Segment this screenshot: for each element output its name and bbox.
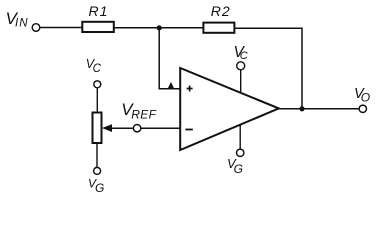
svg-text:R2: R2	[211, 3, 231, 19]
svg-text:REF: REF	[131, 108, 156, 122]
wire R1 to R2	[114, 27, 204, 29]
op-amp U1	[180, 68, 279, 150]
arrow on + input wire	[167, 82, 174, 90]
terminal VC pot	[94, 81, 101, 88]
svg-text:G: G	[95, 181, 104, 195]
potentiometer P1 body	[93, 113, 102, 144]
wiper arrow of potentiometer	[102, 124, 112, 132]
svg-text:R1: R1	[89, 3, 109, 19]
svg-text:C: C	[93, 63, 102, 75]
wire VIN to R1	[40, 27, 82, 29]
wire VC to pot	[96, 88, 98, 113]
node B (output junction)	[299, 106, 304, 111]
terminal VG pot	[94, 167, 101, 174]
svg-text:G: G	[234, 162, 243, 176]
wire VREF to op-amp - input	[141, 127, 180, 129]
wire VG to op-amp	[239, 125, 241, 149]
terminal VIN	[32, 24, 40, 32]
terminal VO	[359, 105, 366, 112]
resistor R1	[82, 22, 114, 32]
node A (junction R1/R2/feedback)	[157, 25, 162, 30]
terminal VC op-amp	[237, 62, 245, 70]
wire R2 to output node	[234, 28, 302, 109]
wire node A to op-amp + input	[159, 28, 180, 89]
wire pot to VG	[96, 143, 98, 167]
wire wiper to VREF	[110, 127, 133, 129]
svg-text:C: C	[240, 50, 248, 62]
wire op-amp output to VO	[279, 108, 359, 110]
resistor R2	[203, 23, 234, 33]
svg-text:O: O	[361, 91, 370, 105]
wire VC to op-amp	[240, 70, 242, 92]
svg-text:IN: IN	[15, 17, 29, 29]
terminal VG op-amp	[237, 149, 244, 156]
terminal VREF	[133, 125, 140, 132]
